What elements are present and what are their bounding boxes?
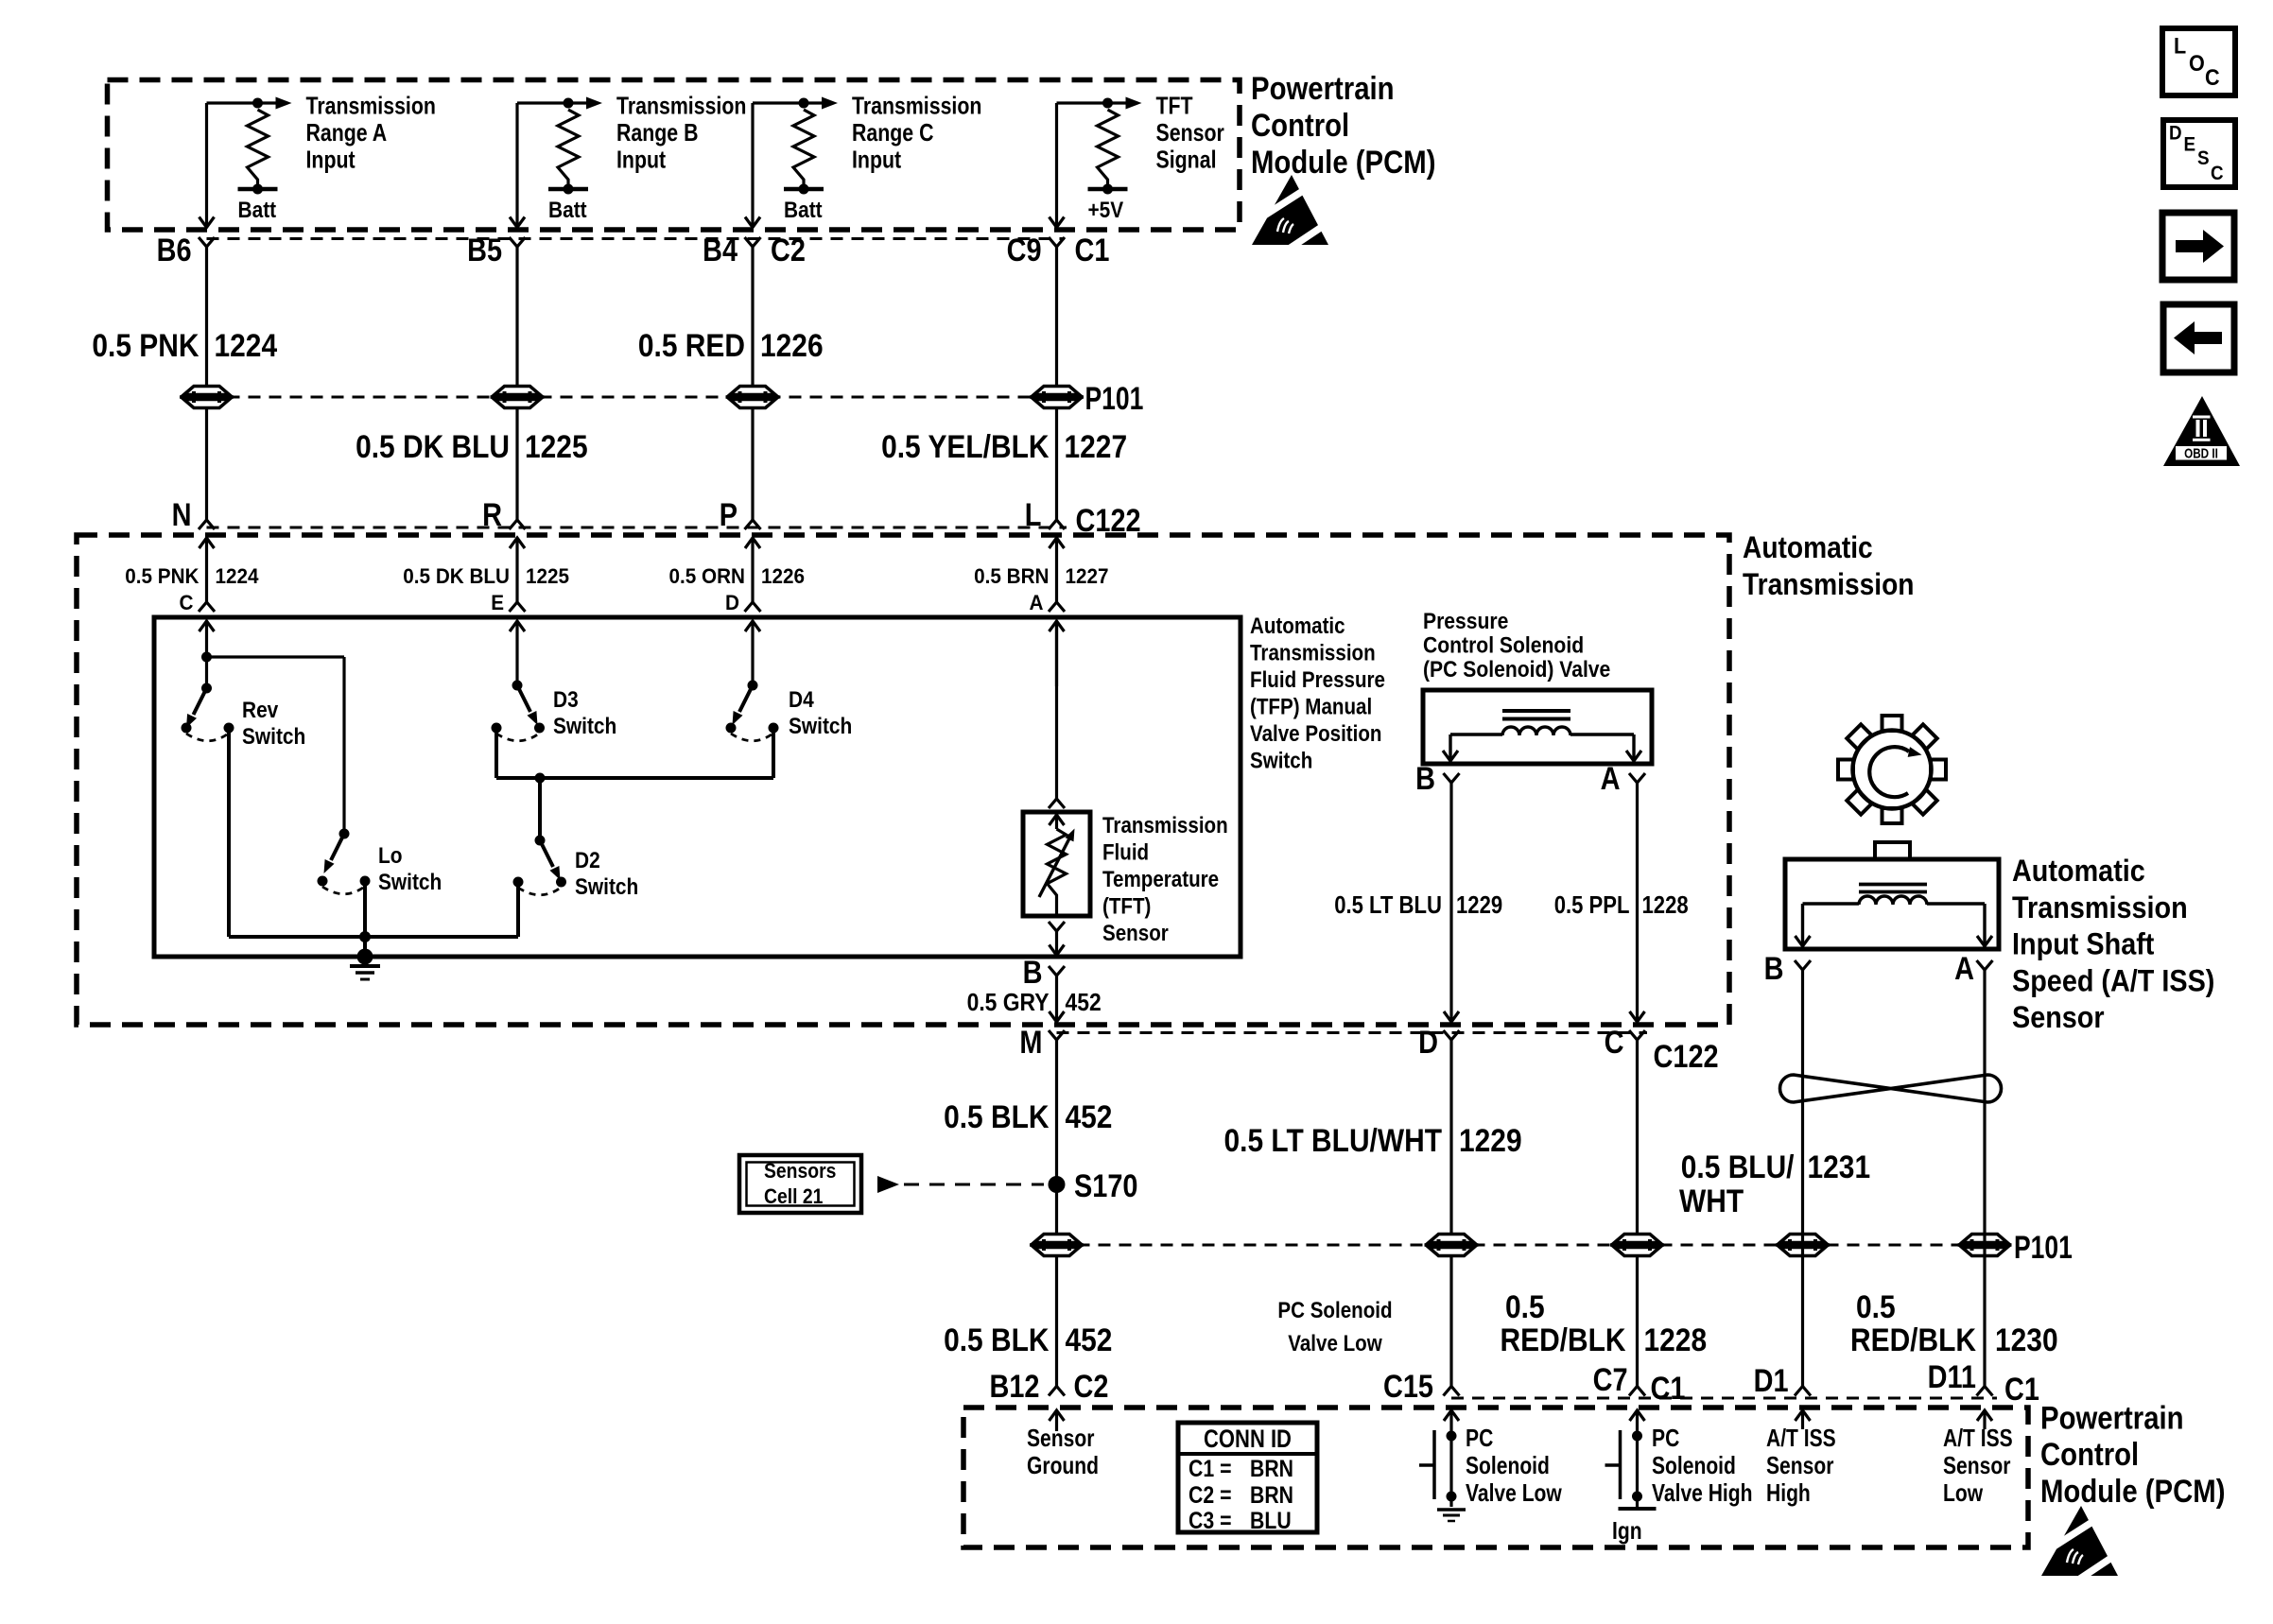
svg-text:CONN ID: CONN ID — [1204, 1425, 1292, 1453]
svg-text:Input: Input — [616, 146, 666, 174]
svg-text:0.5 PNK: 0.5 PNK — [92, 328, 199, 364]
svg-text:A/T ISS: A/T ISS — [1943, 1424, 2013, 1452]
svg-text:C: C — [2211, 163, 2224, 184]
svg-text:(PC Solenoid) Valve: (PC Solenoid) Valve — [1423, 657, 1610, 682]
svg-text:WHT: WHT — [1679, 1183, 1744, 1219]
svg-text:O: O — [2189, 51, 2205, 77]
svg-text:1229: 1229 — [1456, 890, 1502, 919]
svg-text:Fluid Pressure: Fluid Pressure — [1250, 667, 1385, 693]
svg-text:1225: 1225 — [525, 429, 588, 465]
svg-text:Input: Input — [306, 146, 356, 174]
svg-text:Sensor: Sensor — [1766, 1451, 1833, 1479]
svg-text:E: E — [491, 591, 504, 614]
svg-text:A: A — [1954, 951, 1974, 987]
svg-text:Switch: Switch — [378, 870, 442, 895]
svg-text:0.5 YEL/BLK: 0.5 YEL/BLK — [881, 429, 1050, 465]
svg-text:1225: 1225 — [526, 564, 569, 588]
svg-text:A: A — [1601, 761, 1621, 797]
svg-text:Powertrain: Powertrain — [2040, 1401, 2184, 1437]
svg-text:C2 =: C2 = — [1189, 1482, 1232, 1509]
svg-text:1230: 1230 — [1995, 1322, 2058, 1358]
svg-text:Transmission: Transmission — [1102, 813, 1228, 838]
svg-text:1227: 1227 — [1065, 429, 1128, 465]
svg-text:0.5 BRN: 0.5 BRN — [974, 564, 1049, 588]
svg-text:0.5 PNK: 0.5 PNK — [125, 564, 200, 588]
svg-text:D3: D3 — [553, 687, 579, 713]
svg-text:Ground: Ground — [1027, 1451, 1099, 1479]
svg-text:Range A: Range A — [306, 118, 388, 147]
svg-text:Transmission: Transmission — [1250, 641, 1376, 666]
svg-text:Sensor: Sensor — [1102, 921, 1169, 946]
svg-text:452: 452 — [1066, 988, 1102, 1016]
svg-text:Cell 21: Cell 21 — [764, 1184, 823, 1208]
svg-text:Transmission: Transmission — [2012, 890, 2188, 924]
svg-text:C3 =: C3 = — [1189, 1508, 1232, 1534]
svg-text:Switch: Switch — [1250, 749, 1312, 774]
svg-text:0.5 LT BLU/WHT: 0.5 LT BLU/WHT — [1224, 1123, 1443, 1159]
svg-text:Sensor: Sensor — [1027, 1424, 1094, 1452]
svg-text:B5: B5 — [467, 233, 502, 268]
svg-text:PC: PC — [1466, 1424, 1493, 1452]
svg-text:C15: C15 — [1383, 1369, 1433, 1405]
svg-text:C1: C1 — [1075, 233, 1110, 268]
svg-text:Batt: Batt — [548, 198, 587, 223]
svg-text:RED/BLK: RED/BLK — [1501, 1322, 1626, 1358]
svg-text:1226: 1226 — [761, 564, 805, 588]
svg-text:Low: Low — [1943, 1478, 1984, 1507]
svg-text:452: 452 — [1066, 1099, 1113, 1135]
svg-text:(TFP) Manual: (TFP) Manual — [1250, 695, 1372, 720]
svg-text:PC Solenoid: PC Solenoid — [1277, 1298, 1392, 1323]
svg-text:Control: Control — [1251, 108, 1349, 144]
svg-text:D11: D11 — [1928, 1359, 1976, 1395]
svg-text:P101: P101 — [1085, 381, 1144, 417]
svg-text:Transmission: Transmission — [306, 92, 436, 120]
svg-text:Sensor: Sensor — [1943, 1451, 2010, 1479]
svg-text:0.5 BLK: 0.5 BLK — [944, 1099, 1050, 1135]
svg-text:Valve Low: Valve Low — [1288, 1331, 1382, 1356]
svg-text:B12: B12 — [990, 1369, 1040, 1405]
svg-text:BRN: BRN — [1250, 1482, 1293, 1509]
svg-text:Input Shaft: Input Shaft — [2012, 927, 2155, 961]
svg-text:Transmission: Transmission — [1743, 567, 1915, 601]
svg-text:Powertrain: Powertrain — [1251, 71, 1395, 107]
svg-text:N: N — [172, 497, 192, 533]
svg-text:Automatic: Automatic — [2012, 854, 2145, 888]
svg-text:Sensors: Sensors — [764, 1159, 836, 1183]
svg-text:1224: 1224 — [216, 564, 259, 588]
svg-text:D: D — [725, 591, 739, 614]
svg-text:Lo: Lo — [378, 843, 403, 869]
svg-text:C: C — [180, 591, 194, 614]
svg-text:0.5 DK BLU: 0.5 DK BLU — [403, 564, 510, 588]
svg-text:D4: D4 — [789, 687, 814, 713]
svg-text:C9: C9 — [1007, 233, 1042, 268]
svg-text:D1: D1 — [1754, 1363, 1789, 1399]
svg-text:1231: 1231 — [1808, 1149, 1871, 1185]
svg-text:S170: S170 — [1074, 1168, 1138, 1204]
svg-text:C1 =: C1 = — [1189, 1456, 1232, 1482]
svg-text:1228: 1228 — [1644, 1322, 1708, 1358]
svg-text:OBD II: OBD II — [2184, 446, 2218, 462]
svg-text:B4: B4 — [703, 233, 737, 268]
svg-text:Module (PCM): Module (PCM) — [1251, 145, 1436, 181]
svg-text:Rev: Rev — [242, 698, 279, 723]
svg-text:0.5 ORN: 0.5 ORN — [669, 564, 746, 588]
svg-text:Automatic: Automatic — [1250, 613, 1345, 639]
svg-text:Switch: Switch — [789, 714, 852, 739]
svg-text:A: A — [1030, 591, 1044, 614]
svg-text:C1: C1 — [1651, 1371, 1686, 1407]
svg-text:High: High — [1766, 1478, 1811, 1507]
svg-text:D: D — [1418, 1025, 1438, 1061]
svg-text:+5V: +5V — [1088, 198, 1124, 223]
svg-text:Signal: Signal — [1156, 146, 1217, 174]
svg-text:0.5 GRY: 0.5 GRY — [967, 988, 1050, 1016]
svg-text:BLU: BLU — [1250, 1508, 1292, 1534]
svg-text:1226: 1226 — [760, 328, 824, 364]
svg-text:Batt: Batt — [784, 198, 823, 223]
svg-text:Transmission: Transmission — [616, 92, 746, 120]
svg-text:C2: C2 — [1074, 1369, 1109, 1405]
svg-text:Automatic: Automatic — [1743, 530, 1873, 564]
svg-text:0.5 BLU/: 0.5 BLU/ — [1681, 1149, 1795, 1185]
svg-text:452: 452 — [1066, 1322, 1113, 1358]
svg-text:0.5 BLK: 0.5 BLK — [944, 1322, 1050, 1358]
svg-text:P101: P101 — [2014, 1230, 2073, 1266]
svg-text:Valve High: Valve High — [1652, 1478, 1753, 1507]
svg-text:0.5 DK BLU: 0.5 DK BLU — [356, 429, 510, 465]
svg-text:B: B — [1415, 761, 1435, 797]
svg-text:R: R — [482, 497, 502, 533]
svg-text:Control: Control — [2040, 1437, 2139, 1473]
svg-text:M: M — [1019, 1025, 1042, 1061]
svg-text:Ign: Ign — [1612, 1516, 1642, 1545]
svg-text:P: P — [720, 497, 737, 533]
svg-text:Switch: Switch — [242, 724, 305, 750]
svg-text:Range C: Range C — [852, 118, 934, 147]
svg-text:Transmission: Transmission — [852, 92, 981, 120]
svg-text:D: D — [2169, 123, 2182, 145]
svg-text:0.5 PPL: 0.5 PPL — [1554, 890, 1630, 919]
svg-text:0.5: 0.5 — [1505, 1289, 1545, 1325]
svg-text:Valve Low: Valve Low — [1466, 1478, 1562, 1507]
svg-text:Speed (A/T ISS): Speed (A/T ISS) — [2012, 963, 2214, 997]
svg-text:L: L — [1025, 497, 1042, 533]
svg-text:Sensor: Sensor — [2012, 1000, 2105, 1034]
svg-text:C1: C1 — [2004, 1372, 2039, 1408]
svg-text:B6: B6 — [157, 233, 192, 268]
svg-text:0.5 LT BLU: 0.5 LT BLU — [1334, 890, 1442, 919]
svg-text:1229: 1229 — [1459, 1123, 1522, 1159]
svg-text:Switch: Switch — [575, 874, 638, 900]
svg-text:S: S — [2197, 147, 2210, 169]
svg-text:BRN: BRN — [1250, 1456, 1293, 1482]
svg-text:1228: 1228 — [1642, 890, 1689, 919]
svg-text:PC: PC — [1652, 1424, 1679, 1452]
svg-text:E: E — [2184, 134, 2196, 156]
svg-text:Control Solenoid: Control Solenoid — [1423, 633, 1584, 659]
svg-text:C2: C2 — [771, 233, 806, 268]
svg-text:(TFT): (TFT) — [1102, 894, 1151, 920]
svg-text:Switch: Switch — [553, 714, 616, 739]
svg-text:D2: D2 — [575, 848, 600, 873]
svg-text:B: B — [1023, 955, 1043, 991]
svg-text:1227: 1227 — [1066, 564, 1109, 588]
svg-text:A/T ISS: A/T ISS — [1766, 1424, 1836, 1452]
svg-text:Valve Position: Valve Position — [1250, 721, 1382, 747]
svg-text:TFT: TFT — [1156, 92, 1193, 120]
svg-text:0.5 RED: 0.5 RED — [638, 328, 745, 364]
svg-text:1224: 1224 — [215, 328, 278, 364]
svg-text:Module (PCM): Module (PCM) — [2040, 1474, 2226, 1510]
svg-text:Sensor: Sensor — [1156, 118, 1224, 147]
svg-text:Pressure: Pressure — [1423, 609, 1508, 634]
svg-text:C7: C7 — [1593, 1362, 1628, 1398]
svg-text:C: C — [2205, 65, 2220, 91]
svg-text:Fluid: Fluid — [1102, 840, 1149, 866]
svg-text:Solenoid: Solenoid — [1652, 1451, 1736, 1479]
svg-text:Temperature: Temperature — [1102, 867, 1219, 892]
svg-text:0.5: 0.5 — [1856, 1289, 1896, 1325]
svg-text:B: B — [1764, 951, 1784, 987]
svg-text:Input: Input — [852, 146, 901, 174]
svg-text:L: L — [2174, 34, 2186, 60]
svg-text:C: C — [1605, 1025, 1624, 1061]
svg-text:Solenoid: Solenoid — [1466, 1451, 1550, 1479]
svg-text:Batt: Batt — [238, 198, 277, 223]
svg-text:C122: C122 — [1654, 1039, 1719, 1075]
svg-text:Range B: Range B — [616, 118, 699, 147]
svg-text:RED/BLK: RED/BLK — [1850, 1322, 1976, 1358]
